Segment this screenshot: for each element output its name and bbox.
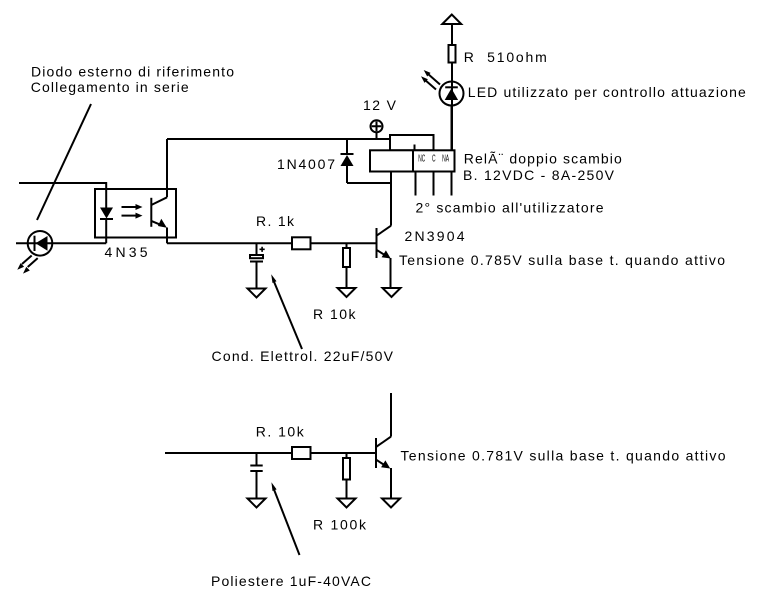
LED D1 emission arrows [22,256,32,265]
relay K1 main box [370,150,455,171]
svg-text:B. 12VDC - 8A-250V: B. 12VDC - 8A-250V [463,167,615,183]
capacitor C1 22uF/50V electrolytic [256,243,258,255]
svg-text:Collegamento in serie: Collegamento in serie [31,79,189,95]
U1 coupling arrows [122,206,137,208]
svg-text:R. 10k: R. 10k [256,424,305,440]
wire relay pin to Q1 collector [390,172,392,226]
12V supply circle-plus [371,120,383,132]
ground Q2 emitter [382,499,400,508]
ground C2 [248,499,266,508]
svg-text:R 10k: R 10k [313,306,357,322]
diode 1N4007 [346,139,348,183]
resistor R. 10k body [292,447,311,459]
svg-text:12 V: 12 V [363,97,397,113]
resistor R 510ohm body [449,45,456,63]
svg-text:Tensione 0.785V sulla base t.: Tensione 0.785V sulla base t. quando att… [399,252,725,268]
wire LED to relay [451,106,453,151]
LED D2 emission arrows [428,74,441,85]
ground Q1 emitter [383,288,401,297]
wire top-left [19,183,106,189]
resistor R. 1k body [292,237,311,249]
U1 phototransistor [150,198,152,227]
relay pins NC C NA [416,172,452,196]
relay K1 coil top box [390,135,434,150]
relay divider [412,150,414,171]
svg-text:1N4007: 1N4007 [277,156,335,172]
LED D1 external [16,242,106,244]
ground C1 [248,289,266,298]
resistor R 100k vertical [346,453,348,458]
ground R 100k [338,499,356,508]
wire 1N4007 anode to relay pin [347,182,391,184]
wire top rail [167,138,390,140]
wire base rail 2 [165,452,376,454]
transistor Q1 2N3904 [376,228,378,258]
ground R 10k [338,288,356,297]
U1 internal LED [105,189,107,243]
svg-text:Poliestere 1uF-40VAC: Poliestere 1uF-40VAC [211,573,371,589]
relay coil pin stub [414,145,416,151]
annotation line (diodo esterno) [37,104,91,220]
svg-text:Cond. Elettrol. 22uF/50V: Cond. Elettrol. 22uF/50V [212,348,394,364]
svg-text:2° scambio all'utilizzatore: 2° scambio all'utilizzatore [416,200,604,216]
wire 12V stub [376,132,378,139]
optocoupler U1 4N35 box [95,189,176,238]
transistor Q2 [390,393,392,437]
wire base rail (right of 4N35) [167,242,377,244]
annotation arrow to C1 [274,281,303,350]
resistor R 10k vertical [346,243,348,248]
capacitor C2 poliestere [256,453,258,466]
svg-text:C: C [432,154,436,165]
svg-text:NA: NA [442,154,449,165]
svg-text:R. 1k: R. 1k [256,213,295,229]
svg-text:RelÃ¨ doppio scambio: RelÃ¨ doppio scambio [464,150,622,166]
power arrow (up) top of R 510ohm [451,24,453,150]
svg-text:LED utilizzato per controllo a: LED utilizzato per controllo attuazione [468,84,746,100]
svg-text:Tensione 0.781V sulla base t.: Tensione 0.781V sulla base t. quando att… [401,448,726,464]
svg-text:NC: NC [418,154,425,165]
svg-text:R 100k: R 100k [313,517,367,533]
svg-text:Diodo esterno di riferimento: Diodo esterno di riferimento [31,64,234,80]
annotation arrow to C2 [274,489,300,555]
LED D2 (controllo attuazione) [440,82,464,106]
